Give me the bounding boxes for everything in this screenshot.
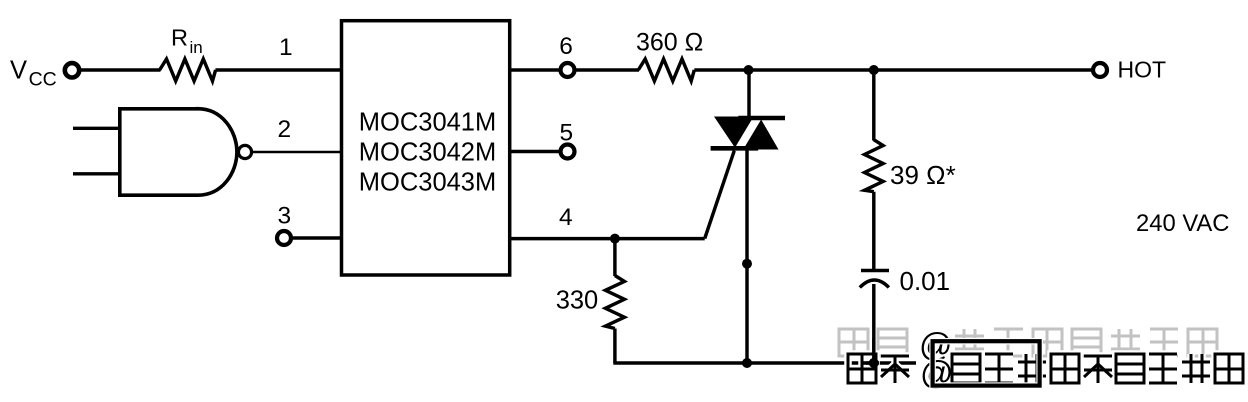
svg-text:2: 2	[278, 116, 292, 143]
svg-text:MOC3041M: MOC3041M	[359, 108, 496, 136]
wire R330 to bottom rail	[613, 329, 616, 364]
terminal pin 5	[561, 145, 575, 159]
junction top rail / triac	[744, 65, 754, 75]
svg-text:5: 5	[560, 120, 574, 147]
svg-text:330: 330	[556, 287, 599, 315]
junction top rail / snubber	[869, 65, 879, 75]
watermark frame box	[933, 341, 1040, 385]
wire pin6 to R360	[577, 68, 640, 71]
wire pin 5	[510, 120, 573, 152]
capacitor C1 0.01	[860, 266, 950, 296]
wire capacitor to bottom rail	[872, 284, 875, 363]
wire top rail to HOT	[694, 68, 1092, 71]
svg-text:360 Ω: 360 Ω	[636, 29, 703, 57]
svg-text:HOT: HOT	[1118, 57, 1167, 83]
svg-text:39 Ω*: 39 Ω*	[890, 160, 956, 190]
svg-text:MOC3042M: MOC3042M	[359, 138, 496, 166]
terminal VCC	[65, 63, 79, 77]
svg-text:MOC3043M: MOC3043M	[359, 168, 496, 196]
terminal pin 3	[277, 203, 291, 246]
svg-text:R: R	[171, 24, 188, 50]
wire Rin to pin 1	[215, 34, 343, 70]
svg-text:V: V	[10, 56, 27, 84]
NAND gate U2	[73, 109, 252, 196]
svg-text:6: 6	[559, 33, 573, 60]
svg-text:CC: CC	[29, 68, 57, 90]
svg-text:3: 3	[278, 203, 292, 230]
watermark grey line 知乎 @工程师助理小七	[839, 326, 1217, 363]
wire pin4 junction down	[613, 239, 616, 276]
svg-text:4: 4	[559, 204, 573, 231]
optocoupler U1 MOC3041M box	[342, 21, 510, 275]
wire NAND output to pin 2	[252, 116, 343, 152]
junction pin4 / R330	[610, 234, 620, 244]
svg-text:1: 1	[279, 34, 293, 61]
terminal pin 6	[561, 63, 575, 77]
wire bottom rail	[613, 361, 916, 364]
resistor R3 330	[556, 276, 625, 329]
resistor R1 Rin	[160, 24, 216, 81]
terminal HOT	[1093, 57, 1166, 83]
svg-text:240 VAC: 240 VAC	[1136, 210, 1229, 237]
wire pin3 terminal to IC	[293, 236, 343, 239]
watermark black line 头条 @电子工程师助理小七	[848, 354, 1243, 391]
junction bottom rail / capacitor redraw	[869, 358, 879, 368]
wire rail to R39	[872, 70, 875, 141]
node VCC label	[10, 56, 57, 90]
wire triac gate	[705, 147, 736, 239]
wire pin 6	[510, 33, 573, 70]
resistor R4 39 ohm	[865, 140, 956, 192]
wire pin 4	[510, 204, 705, 239]
wire capacitor lead over watermark	[861, 338, 879, 363]
svg-text:0.01: 0.01	[900, 266, 951, 296]
resistor R2 360 ohm	[636, 29, 703, 82]
label 240 VAC	[1136, 210, 1229, 237]
svg-text:in: in	[190, 38, 203, 57]
junction bottom rail / triac	[742, 358, 752, 368]
junction triac lead	[742, 259, 752, 269]
wire R39 to capacitor	[872, 192, 875, 270]
wire VCC to Rin	[81, 68, 161, 71]
triac Q1	[711, 70, 785, 363]
junction bottom rail / capacitor	[869, 358, 879, 368]
